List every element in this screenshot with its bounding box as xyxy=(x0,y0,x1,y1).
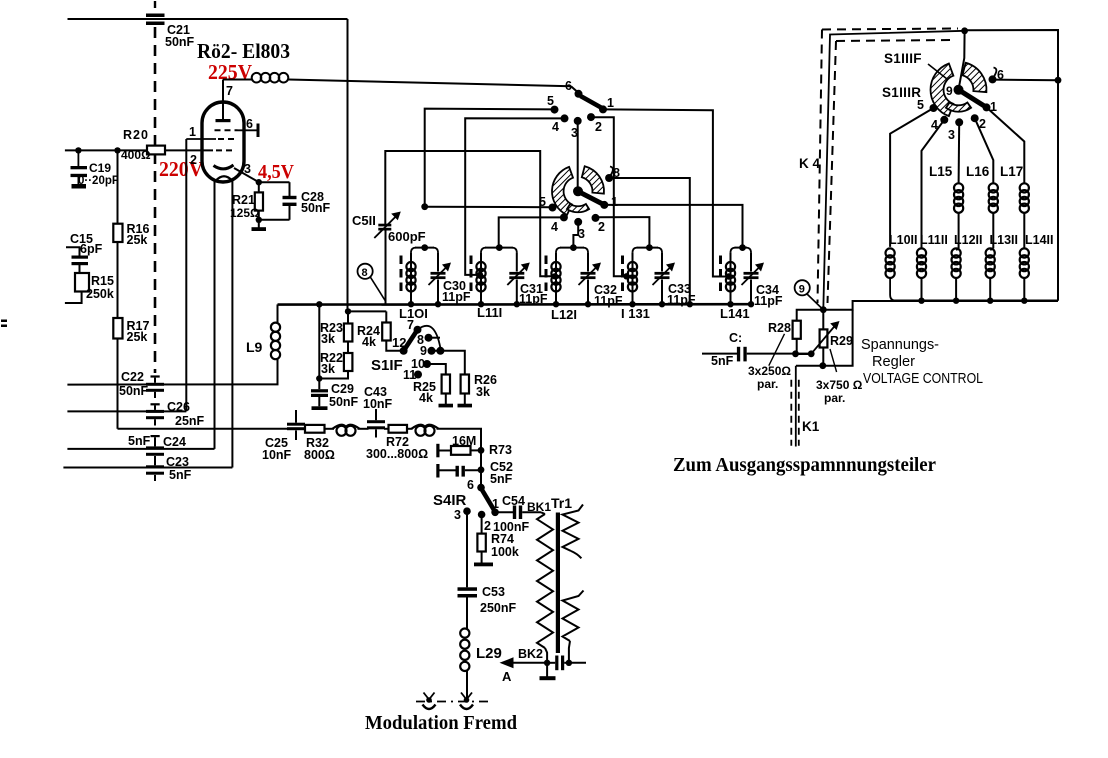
inductor L10II xyxy=(886,248,895,257)
svg-text:L17: L17 xyxy=(1000,164,1023,179)
svg-text:5nF: 5nF xyxy=(711,354,734,368)
transformer Tr1 secondary upper xyxy=(563,505,584,552)
node wiper join xyxy=(808,350,815,357)
svg-text:2: 2 xyxy=(190,153,197,167)
svg-text:6pF: 6pF xyxy=(80,242,103,256)
wire m1 to L14I xyxy=(604,205,742,248)
wire main bus xyxy=(278,303,752,306)
wire r1 to L17 xyxy=(987,107,1025,183)
svg-text:1: 1 xyxy=(189,125,196,139)
svg-text:Tr1: Tr1 xyxy=(551,495,572,511)
switch S1IF wiper xyxy=(404,330,418,351)
svg-text:25nF: 25nF xyxy=(175,414,205,428)
capacitor C52 xyxy=(456,466,459,477)
switch S4IR contact 3 xyxy=(463,507,471,515)
svg-text:Spannungs-: Spannungs- xyxy=(861,337,939,353)
svg-text:6: 6 xyxy=(997,68,1004,82)
switch S1IIIF rotor right segment xyxy=(962,63,986,92)
wire C25 to R32 xyxy=(303,428,305,430)
svg-text:8: 8 xyxy=(362,267,368,279)
tube heater xyxy=(216,176,233,181)
svg-text:6: 6 xyxy=(467,478,474,492)
switch S1IR contact 8 xyxy=(605,174,613,182)
svg-text:5nF: 5nF xyxy=(128,434,151,448)
resistor R17 xyxy=(113,318,122,339)
capacitor C24 xyxy=(146,446,164,449)
tuned circuit L10I xyxy=(410,253,412,305)
svg-text:7: 7 xyxy=(226,84,233,98)
switch S1IF-upper contact 5 xyxy=(551,106,559,114)
switch S4IR contact 2 xyxy=(478,511,486,519)
potentiometer R29 xyxy=(822,310,824,330)
svg-text:R29: R29 xyxy=(830,334,853,348)
wire u1 to L14I tap xyxy=(603,109,728,276)
svg-text:BK2: BK2 xyxy=(518,647,543,661)
node rbus L11II xyxy=(918,298,924,304)
transformer Tr1 secondary lower xyxy=(563,591,584,642)
svg-text:0··20pF: 0··20pF xyxy=(78,175,119,187)
svg-text:1: 1 xyxy=(611,195,618,209)
transformer Tr1 primary xyxy=(537,514,553,648)
node r6 join xyxy=(1055,77,1062,84)
svg-text:9: 9 xyxy=(420,344,427,358)
svg-text:3k: 3k xyxy=(321,332,335,346)
resistor R22 xyxy=(347,342,349,354)
svg-text:Zum Ausgangsspamnnungsteiler: Zum Ausgangsspamnnungsteiler xyxy=(673,454,936,476)
node BK2 left xyxy=(544,660,550,666)
inductor L12II xyxy=(952,248,961,257)
wire pin1-pin2 tie xyxy=(185,139,187,411)
switch S1IF contact 10 xyxy=(423,360,431,368)
wire pin1 to C54 xyxy=(495,511,513,513)
tube pin6 terminal xyxy=(257,124,260,138)
switch S1III contact 5 xyxy=(930,104,938,112)
svg-text:2: 2 xyxy=(484,519,491,533)
wire u4 to L11I tap xyxy=(465,118,564,275)
inductor L16 xyxy=(989,183,998,192)
wire right loop down xyxy=(347,19,349,311)
svg-text:6: 6 xyxy=(565,79,572,93)
wire heater left xyxy=(214,180,216,449)
svg-text:11pF: 11pF xyxy=(519,292,548,306)
svg-text:250k: 250k xyxy=(86,287,114,301)
tube grid g3 dashed xyxy=(215,129,238,131)
svg-text:11pF: 11pF xyxy=(442,290,471,304)
wire R28 label pointer xyxy=(769,334,785,366)
tuned circuit L11I xyxy=(480,253,482,305)
svg-text:C24: C24 xyxy=(163,435,186,449)
node bus-R23 riser xyxy=(316,301,322,307)
switch S1IR rotor hub xyxy=(573,186,583,196)
resistor R16 xyxy=(117,150,119,223)
cable K1 conductor xyxy=(795,366,797,447)
svg-text:50nF: 50nF xyxy=(119,384,149,398)
wire coil to C43 xyxy=(358,428,369,430)
switch S1III contact 1 xyxy=(983,103,991,111)
wire vc left xyxy=(797,310,824,321)
node C29 top xyxy=(316,375,322,381)
wire r6 contact xyxy=(993,79,1059,82)
svg-text:3k: 3k xyxy=(321,362,335,376)
switch S1IF contact 9 xyxy=(428,347,436,355)
tube plate choke L xyxy=(222,80,224,103)
ground R21 xyxy=(258,220,260,228)
switch S4IR contact 6 xyxy=(477,484,485,492)
svg-text:par.: par. xyxy=(824,391,845,405)
capacitor C15 xyxy=(66,247,80,255)
svg-text:L9: L9 xyxy=(246,339,263,355)
resistor R73 16M xyxy=(451,446,471,455)
switch S1III contact 6 hook xyxy=(994,68,997,77)
svg-text:1: 1 xyxy=(492,497,499,511)
ref circle 9 xyxy=(795,280,810,295)
wire m3 to L12I xyxy=(573,222,578,248)
capacitor C 5nF xyxy=(737,347,740,362)
svg-text:4k: 4k xyxy=(419,391,433,405)
wire feed top right xyxy=(965,30,1058,301)
svg-text:par.: par. xyxy=(757,377,778,391)
svg-text:L12I: L12I xyxy=(551,307,577,322)
svg-text:5nF: 5nF xyxy=(490,472,513,486)
svg-text:C54: C54 xyxy=(502,494,525,508)
svg-text:600pF: 600pF xyxy=(388,229,426,244)
capacitor C19 xyxy=(77,150,79,166)
wire r3 to L15 xyxy=(958,122,961,183)
svg-text:9: 9 xyxy=(946,84,953,98)
tuned circuit L12I xyxy=(555,253,557,305)
wire R20 to grid xyxy=(165,149,213,151)
wire pin3 to C53 xyxy=(466,511,468,587)
svg-text:C26: C26 xyxy=(167,400,190,414)
switch S1IF-upper contact 2 xyxy=(587,113,595,121)
svg-text:3: 3 xyxy=(948,128,955,142)
capacitor C54 xyxy=(513,506,516,520)
svg-text:10nF: 10nF xyxy=(363,397,393,411)
wire arrow A xyxy=(512,662,547,664)
svg-text:25k: 25k xyxy=(127,233,148,247)
wire C54 to Tr1 xyxy=(522,511,541,513)
switch S1IF-upper contact 4 xyxy=(561,114,569,122)
svg-text:K1: K1 xyxy=(802,419,820,434)
svg-text:100nF: 100nF xyxy=(493,520,529,534)
svg-text:6: 6 xyxy=(246,117,253,131)
switch S1IF-upper contact 1 xyxy=(599,105,607,113)
switch S1IF-upper contact 3 xyxy=(574,117,582,125)
resistor R21 xyxy=(258,182,260,192)
wire r4 to L11II xyxy=(922,120,945,249)
wire R29 label pointer xyxy=(830,349,837,372)
switch S1IF contact 8 xyxy=(425,334,433,342)
inductor L15 xyxy=(954,183,963,192)
svg-text:L14II: L14II xyxy=(1025,233,1054,247)
tube cathode xyxy=(214,165,234,169)
wire line E xyxy=(63,467,232,469)
wire R29 loop xyxy=(823,310,853,366)
node vc top xyxy=(820,306,827,313)
svg-text:C22: C22 xyxy=(121,370,144,384)
mark colon xyxy=(1,320,7,323)
switch S4IR wiper xyxy=(482,489,495,511)
switch S1IIIF rotor left segment xyxy=(931,64,954,117)
switch S1IF contact 12 xyxy=(400,347,408,355)
svg-text:S1IIIF: S1IIIF xyxy=(884,51,922,66)
switch S1IR rotor left segment xyxy=(552,167,573,215)
svg-text:C53: C53 xyxy=(482,585,505,599)
svg-text:1: 1 xyxy=(607,96,614,110)
connector modulation left xyxy=(426,697,432,703)
wire top rail xyxy=(68,18,348,20)
ground R74 xyxy=(474,563,493,567)
wire m2 to L13I xyxy=(596,217,650,248)
cable K4 conductor xyxy=(823,31,964,310)
svg-text:11pF: 11pF xyxy=(594,294,623,308)
switch S1IR rotor bottom crescent xyxy=(567,204,589,212)
resistor R20 xyxy=(147,146,165,155)
svg-text:250nF: 250nF xyxy=(480,601,516,615)
tuned circuit L14I xyxy=(730,253,732,305)
svg-text:3x250Ω: 3x250Ω xyxy=(748,364,791,378)
node rbus L12II xyxy=(953,298,959,304)
wire R23 top rail xyxy=(348,310,386,312)
svg-text:4: 4 xyxy=(552,120,559,134)
capacitor C43 xyxy=(367,420,385,423)
svg-text:L10II: L10II xyxy=(889,233,918,247)
wire R17 down xyxy=(117,339,119,429)
svg-text:C19: C19 xyxy=(89,161,111,175)
svg-text:C:: C: xyxy=(729,331,742,345)
node R73 xyxy=(478,447,485,454)
svg-text:VOLTAGE CONTROL: VOLTAGE CONTROL xyxy=(863,371,983,387)
node R16 junction xyxy=(114,147,120,153)
svg-text:K 4: K 4 xyxy=(799,156,821,171)
resistor R28 xyxy=(793,321,801,339)
svg-text:C23: C23 xyxy=(166,455,189,469)
svg-text:50nF: 50nF xyxy=(165,35,195,49)
svg-text:100k: 100k xyxy=(491,545,519,559)
resistor R25 xyxy=(427,364,446,375)
switch S1IF-upper contact 6 xyxy=(575,90,583,98)
wire u5 to L10I xyxy=(425,109,555,207)
wire modulation dash-dot xyxy=(416,701,493,703)
svg-text:5: 5 xyxy=(547,94,554,108)
svg-text:L29: L29 xyxy=(476,645,502,662)
capacitor C23 xyxy=(146,465,164,468)
wire right bus xyxy=(893,299,1058,302)
svg-text:R21: R21 xyxy=(232,193,255,207)
node BK2 right xyxy=(566,660,572,666)
cable K4 shield inner xyxy=(836,40,950,41)
switch S1IR contact 2 xyxy=(592,214,600,222)
switch S1IR wiper xyxy=(578,191,604,205)
switch S1IIIF rotor hub xyxy=(954,85,964,95)
node R23 top xyxy=(345,308,351,314)
tube grid g1 dashed xyxy=(216,149,236,151)
wire line B xyxy=(67,410,186,412)
wire BK2 stub right xyxy=(569,662,586,664)
switch S1IR contact 4 xyxy=(560,213,568,221)
pot R29 wiper arrow xyxy=(811,325,836,354)
inductor L13II xyxy=(986,248,995,257)
wire grid feed xyxy=(65,149,147,151)
wire S1IIIF pointer xyxy=(928,64,947,79)
capacitor C22 xyxy=(146,383,164,386)
wire C5II to bus xyxy=(385,231,387,304)
svg-text:A: A xyxy=(502,669,512,684)
wire R32 to coil xyxy=(325,428,335,430)
svg-text:L141: L141 xyxy=(720,306,750,321)
svg-text:I 131: I 131 xyxy=(621,306,650,321)
capacitor C5II xyxy=(378,224,391,227)
svg-text:2: 2 xyxy=(598,220,605,234)
switch S1IR contact 8 hook xyxy=(610,167,613,176)
switch S4IR contact 1 xyxy=(491,509,499,517)
wire vc to right bus xyxy=(823,301,893,310)
switch S1IR contact 3 xyxy=(574,218,582,226)
capacitor BK2 xyxy=(547,662,555,664)
inductor after R72 xyxy=(416,426,426,436)
svg-text:L13II: L13II xyxy=(990,233,1019,247)
wire C5II to L12I tap xyxy=(385,151,554,276)
svg-text:50nF: 50nF xyxy=(301,201,331,215)
wire ref9 pointer xyxy=(807,294,823,309)
svg-text:S1IIIR: S1IIIR xyxy=(882,85,921,100)
svg-text:BK1: BK1 xyxy=(527,500,551,514)
svg-text:4k: 4k xyxy=(362,335,376,349)
wire line C left xyxy=(118,428,288,430)
inductor L9 xyxy=(277,304,279,322)
svg-text:5nF: 5nF xyxy=(169,468,192,482)
node C52 xyxy=(478,466,485,473)
svg-text:300...800Ω: 300...800Ω xyxy=(366,447,428,461)
inductor L11II xyxy=(917,248,926,257)
wire line D xyxy=(67,448,214,450)
switch S1IF contact 11 xyxy=(414,371,422,379)
svg-text:3k: 3k xyxy=(476,385,490,399)
resistor R26 xyxy=(440,351,464,375)
svg-text:16M: 16M xyxy=(452,434,476,448)
svg-text:L15: L15 xyxy=(929,164,953,179)
terminal R73 left xyxy=(436,444,439,458)
resistor R24 xyxy=(385,311,387,322)
resistor R32 xyxy=(305,425,325,433)
svg-text:C5II: C5II xyxy=(352,213,376,228)
tube Ro2 envelope xyxy=(202,102,244,182)
svg-text:R73: R73 xyxy=(489,443,512,457)
wire m8 to bus xyxy=(609,178,690,304)
svg-text:S4IR: S4IR xyxy=(433,492,467,509)
cable K1 shield xyxy=(790,380,792,446)
svg-text:L16: L16 xyxy=(966,164,990,179)
wire R72 to coil2 xyxy=(407,428,413,430)
svg-text:3: 3 xyxy=(454,508,461,522)
node R21 bottom xyxy=(256,217,262,223)
switch S1III contact 6 xyxy=(989,75,997,83)
svg-text:800Ω: 800Ω xyxy=(304,448,335,462)
node rbus L14II xyxy=(1021,298,1027,304)
wire dashed screen line xyxy=(154,27,157,373)
ground BK2 xyxy=(546,663,548,677)
node bus contact8 xyxy=(687,301,693,307)
svg-text:400Ω: 400Ω xyxy=(121,148,151,162)
svg-text:R15: R15 xyxy=(91,274,114,288)
tuned circuit L13I xyxy=(632,253,634,305)
capacitor C53 xyxy=(458,587,478,591)
svg-text:L12II: L12II xyxy=(954,233,983,247)
switch S1III contact 3 xyxy=(955,118,963,126)
resistor R72 xyxy=(389,425,408,433)
switch S1IF rotor arc xyxy=(418,326,441,348)
node L10I switch join xyxy=(421,203,428,210)
svg-text:50nF: 50nF xyxy=(329,395,359,409)
svg-text:9: 9 xyxy=(799,284,805,296)
node S1III feed xyxy=(961,27,968,34)
switch S1III contact 2 xyxy=(971,114,979,122)
tube grid g2 dashed xyxy=(186,138,216,140)
resistor R74 xyxy=(481,515,483,534)
cable K4 shield outer xyxy=(822,29,958,30)
wire r5 to L10II xyxy=(890,108,933,247)
svg-text:R20: R20 xyxy=(123,128,149,142)
wire R16 to R17 xyxy=(117,242,119,318)
wire R24 to pin12 xyxy=(386,341,403,351)
switch S1IF contact 7 xyxy=(414,326,422,334)
node C19 junction xyxy=(75,147,81,153)
wire m4 to L11I xyxy=(499,217,564,248)
resistor R15 xyxy=(75,273,89,292)
svg-text:R28: R28 xyxy=(768,321,791,335)
svg-text:4,5V: 4,5V xyxy=(258,161,294,183)
transformer Tr1 core xyxy=(556,513,560,654)
wire feed to rotor xyxy=(959,31,965,87)
wire coil2 to S4IR leg xyxy=(437,429,482,485)
capacitor C29 xyxy=(318,379,320,390)
capacitor C28 xyxy=(259,181,290,183)
switch S1IR contact 1 xyxy=(600,201,608,209)
wire u3 to rotor xyxy=(577,121,579,190)
svg-text:2: 2 xyxy=(595,120,602,134)
node cathode xyxy=(256,179,262,185)
ref circle 8 xyxy=(358,264,373,279)
capacitor C21 xyxy=(146,14,165,18)
wire K1 top xyxy=(796,365,823,367)
svg-text:S1IF: S1IF xyxy=(371,357,403,374)
svg-text:Rö2- El803: Rö2- El803 xyxy=(197,39,290,63)
wire ref8 pointer xyxy=(371,277,386,300)
terminal C52 left xyxy=(436,464,439,478)
svg-text:25k: 25k xyxy=(127,330,148,344)
inductor L17 xyxy=(1020,183,1029,192)
svg-text:3x750 Ω: 3x750 Ω xyxy=(816,378,863,392)
svg-text:Modulation Fremd: Modulation Fremd xyxy=(365,712,517,734)
node rbus L13II xyxy=(987,298,993,304)
node R29 bottom xyxy=(819,362,826,369)
svg-text:R74: R74 xyxy=(491,532,514,546)
svg-text:5: 5 xyxy=(917,98,924,112)
svg-text:Regler: Regler xyxy=(872,354,915,370)
capacitor C25 xyxy=(287,423,305,426)
svg-text:L11I: L11I xyxy=(477,305,502,320)
switch S1IF-upper wiper xyxy=(581,96,602,108)
svg-text:L11II: L11II xyxy=(920,233,948,247)
switch S1IIIF rotor bottom crescent xyxy=(946,103,971,112)
switch S1III contact 4 xyxy=(940,116,948,124)
wire cathode to node xyxy=(234,168,259,182)
inductor L29 xyxy=(466,598,468,629)
wire cap to R28 xyxy=(702,353,737,355)
svg-text:7: 7 xyxy=(407,318,414,332)
connector modulation right xyxy=(464,697,470,703)
wire heater right xyxy=(231,180,233,468)
